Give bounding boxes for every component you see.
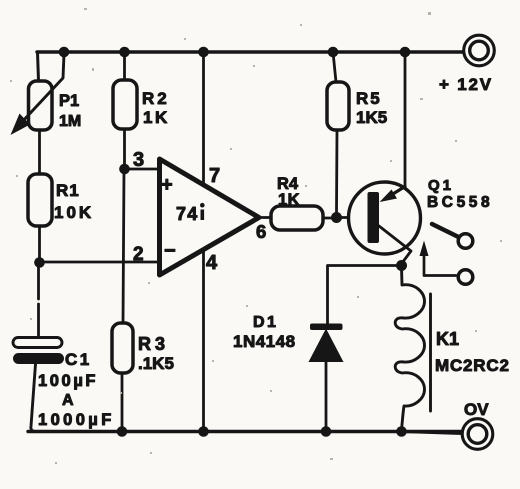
svg-text:2: 2 [133,244,144,265]
resistor R1 body [28,174,52,226]
capacitor C1 bottom plate [13,353,64,364]
potentiometer P1 wiper arrow [21,54,64,123]
terminal 0V outer [462,419,493,450]
svg-text:7: 7 [209,165,220,187]
wire pin 3 [124,168,158,171]
relay contact arm [432,224,460,238]
diode D1 cathode bar [310,324,343,331]
wire bottom rail 0V [28,430,462,433]
wire top rail +12V [37,50,464,53]
resistor R2 body [113,80,137,129]
svg-text:−: − [164,240,176,262]
svg-text:+ 12V: + 12V [439,75,493,94]
wire left column top (rail to P1) [38,52,39,81]
wire base node to transistor [337,216,368,219]
svg-text:K1: K1 [436,329,459,349]
node A junction dot [34,257,45,268]
svg-text:BC558: BC558 [427,194,493,211]
wire R5 to base node [335,130,338,212]
node pin3 junction [119,164,130,175]
relay K1 coil [395,267,424,430]
svg-text:Q1: Q1 [428,177,454,194]
node pin4 rail junction [198,426,209,437]
node base junction [331,212,342,223]
wire R2 to pin3 node [123,129,126,169]
svg-text:R3: R3 [138,334,169,354]
svg-text:3: 3 [133,149,144,171]
svg-text:R1: R1 [56,181,80,200]
wire rail to R5 [333,52,336,82]
transistor Q1 base bar [368,192,380,243]
relay contact terminal lower [458,270,473,285]
capacitor C1 top plate [13,338,62,348]
node R2 top junction [119,47,130,58]
relay K1 frame bar [429,294,432,411]
node R3 bottom junction [117,426,128,437]
terminal 0V inner [468,425,487,444]
node D1 bottom junction [321,426,332,437]
svg-text:A: A [62,392,74,409]
wire R3 to bottom rail [121,373,124,431]
svg-text:74: 74 [176,204,199,224]
node pin7 rail junction [198,47,209,58]
wire inverting input (pin 2 run) [39,261,158,264]
transistor collector lead [379,226,411,263]
wire emitter column from rail [404,52,407,187]
svg-text:C1: C1 [65,350,92,369]
svg-text:1N4148: 1N4148 [233,332,296,351]
svg-text:10K: 10K [54,203,94,222]
resistor R5 body [327,82,349,130]
terminal +12V outer [464,35,495,66]
wire R1 to node A [38,226,41,262]
relay armature arrow [424,254,456,276]
wire pin 4 [202,249,205,431]
transistor emitter arrow (PNP) [388,187,405,198]
terminal +12V inner [470,41,489,60]
svg-text:R2: R2 [142,89,170,108]
svg-text:1K5: 1K5 [356,108,387,127]
svg-text:+: + [161,174,173,196]
wire R4 to base node [323,217,336,220]
svg-text:1K: 1K [143,108,170,127]
wire D1 anode lead [325,362,328,431]
relay contact terminal upper [458,234,473,249]
node R5 top junction [328,47,339,58]
potentiometer P1 body [29,81,53,130]
node P1 wiper junction [59,47,70,58]
svg-text:100µF: 100µF [38,372,98,390]
svg-text:1K: 1K [278,191,300,209]
wire rail to R2 [123,52,126,80]
svg-text:OV: OV [464,400,489,419]
wire collector node to D1 [328,264,401,267]
wire node A to C1 [37,263,40,299]
svg-text:1M: 1M [59,113,81,130]
svg-text:4: 4 [206,252,218,274]
svg-text:.1K5: .1K5 [138,354,174,373]
wire to 0V terminal [402,432,462,434]
diode D1 triangle [309,329,344,363]
resistor R4 body [271,206,323,230]
wire D1 cathode lead [326,266,329,325]
svg-text:D1: D1 [253,314,278,331]
transistor Q1 circle [349,182,421,254]
svg-text:MC2RC2: MC2RC2 [435,356,510,375]
svg-text:R5: R5 [356,89,382,108]
svg-text:1000µF: 1000µF [38,411,115,429]
node relay bottom junction [396,426,407,437]
wire C1 to bottom rail [31,364,36,432]
wire P1 to R1 [38,130,41,174]
wire pin 6 output [259,216,271,219]
svg-text:P1: P1 [59,92,79,110]
wire pin 7 [202,52,205,185]
wire divider column to R3 [123,169,124,323]
resistor R3 body [112,323,133,373]
op-amp U1 741 triangle [160,159,260,275]
node emitter rail junction [400,47,411,58]
node collector junction [396,260,407,271]
svg-text:6: 6 [256,221,266,242]
